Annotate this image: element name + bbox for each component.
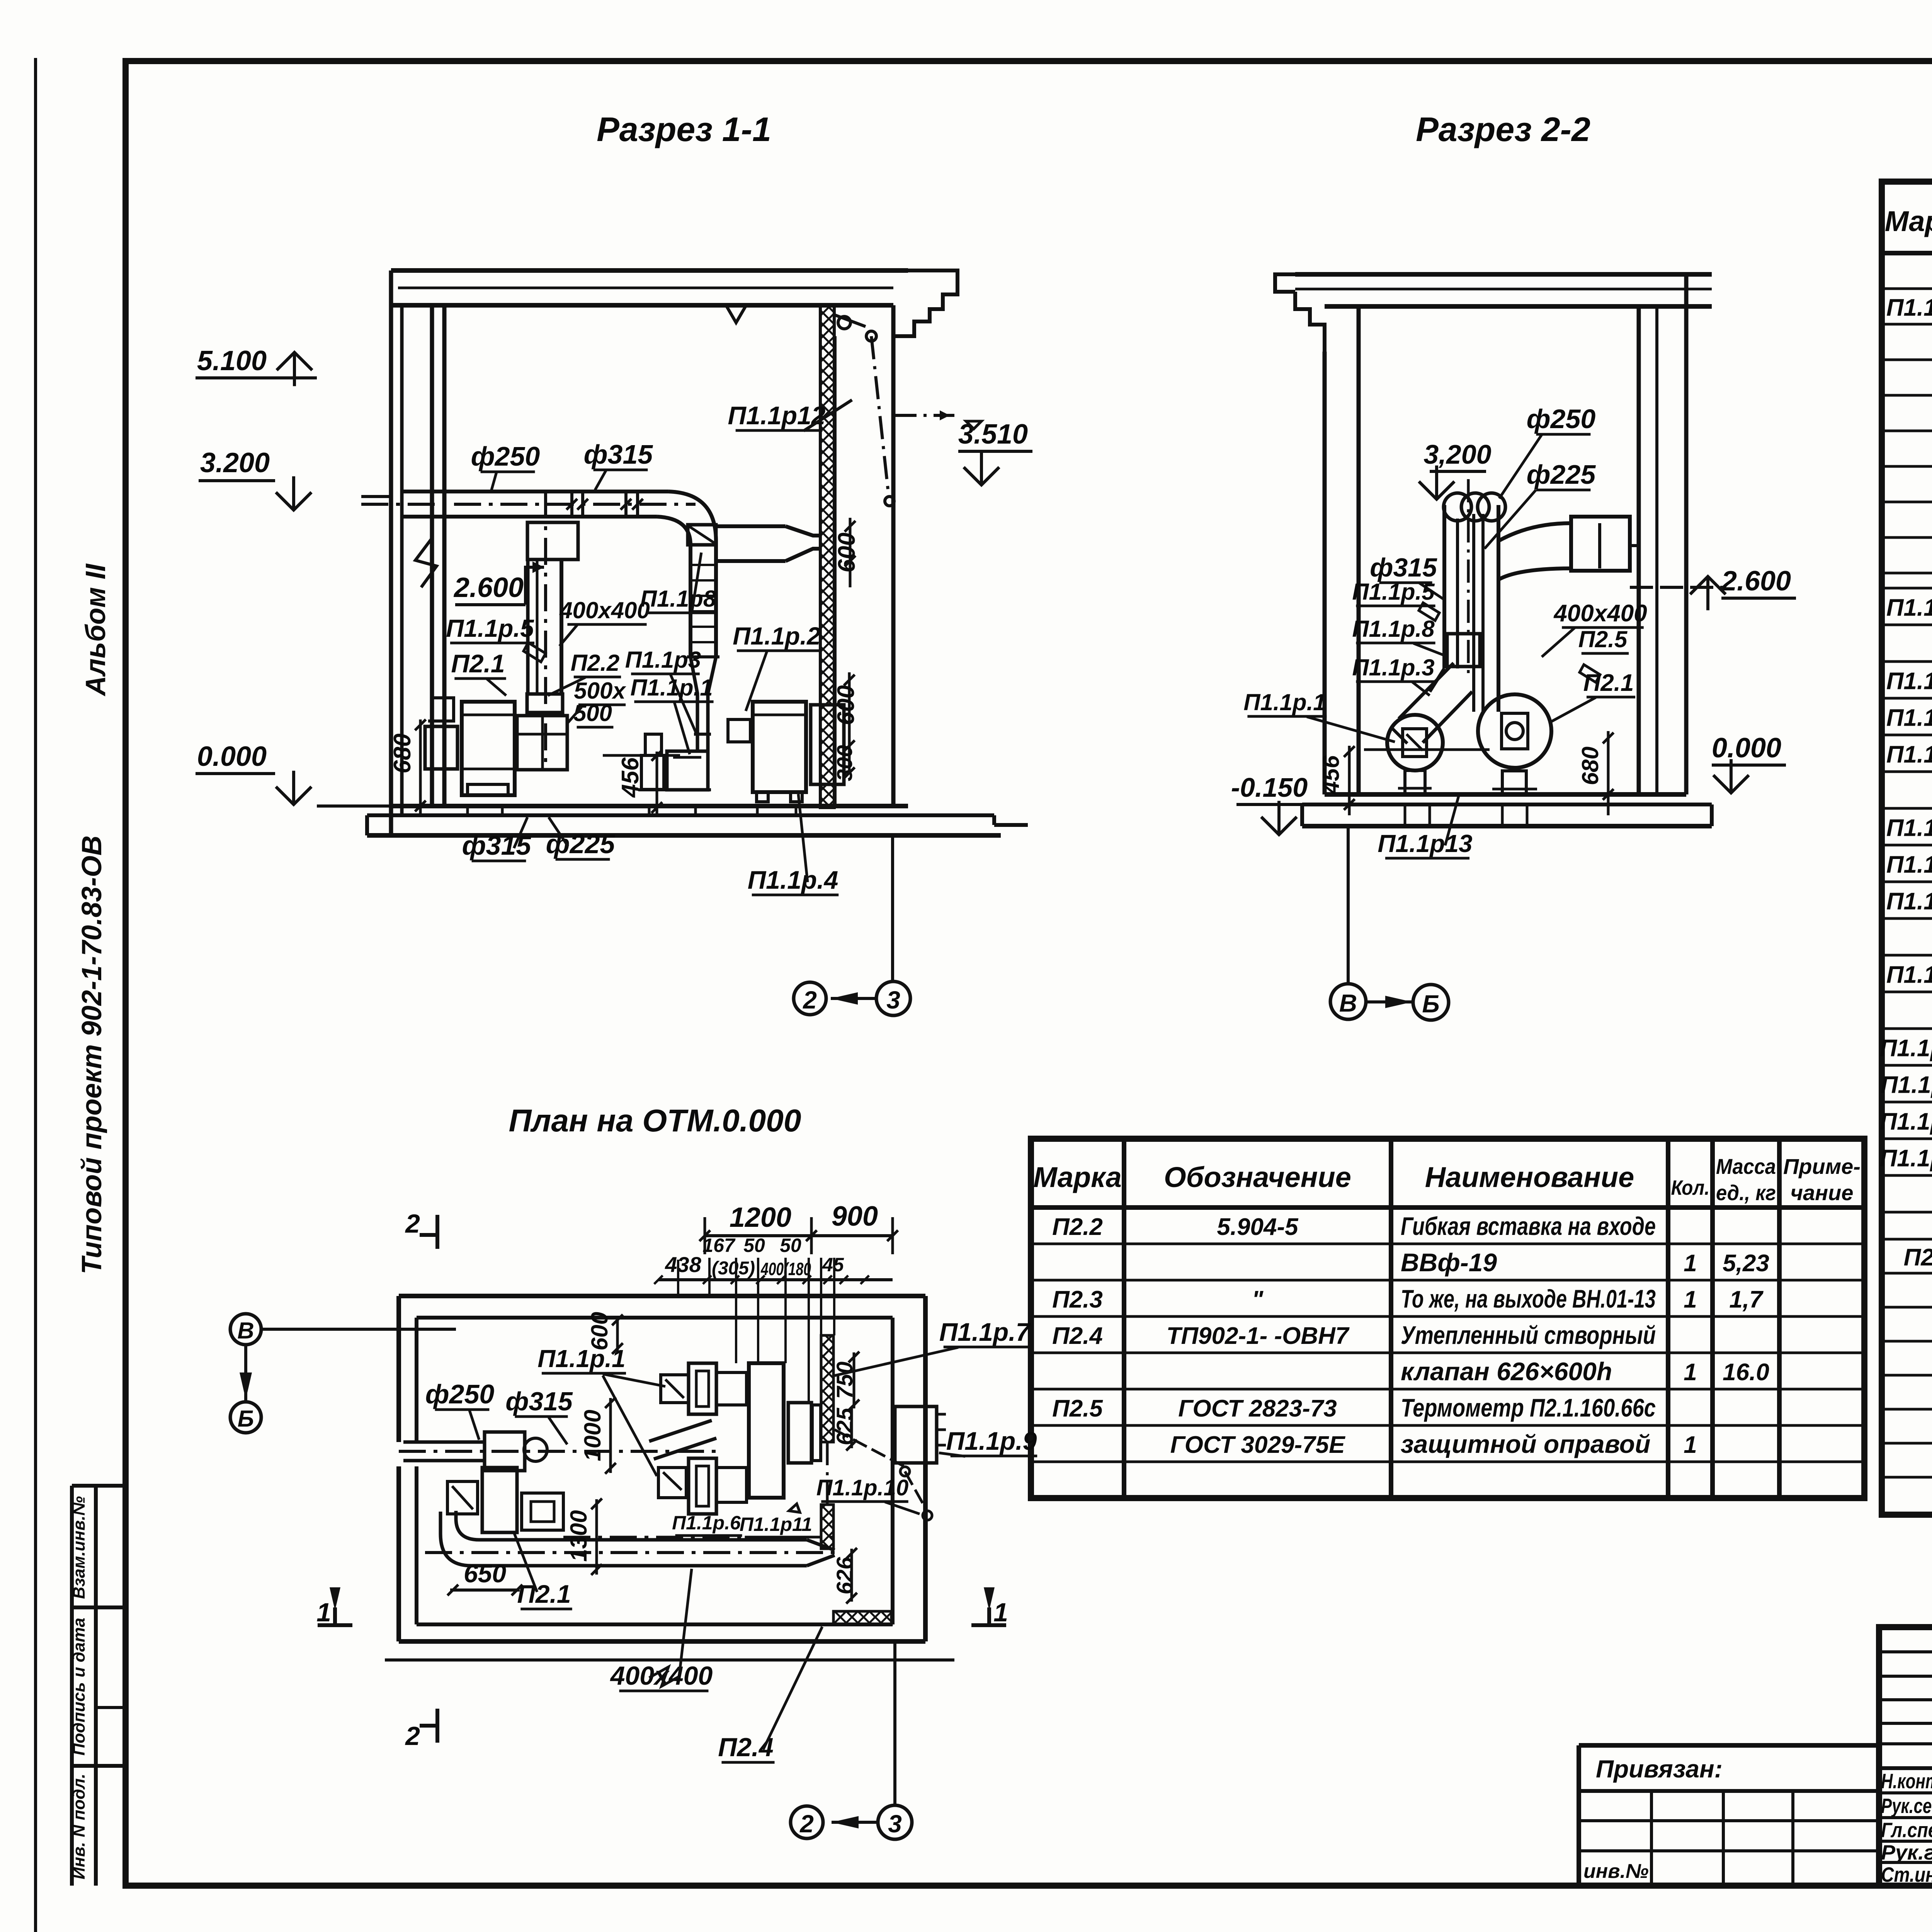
svg-text:1: 1 (993, 1598, 1008, 1627)
svg-text:П1.1р.5: П1.1р.5 (1886, 742, 1932, 768)
svg-text:П2.5: П2.5 (1052, 1395, 1103, 1422)
svg-text:П1.1р.4: П1.1р.4 (1886, 705, 1932, 731)
svg-text:П1.1р.10: П1.1р.10 (1880, 1035, 1932, 1062)
svg-text:П2.3: П2.3 (1052, 1286, 1103, 1313)
plan drawing План на ОТМ.0.000 (230, 1103, 1037, 1839)
svg-text:(305): (305) (712, 1258, 755, 1279)
svg-text:438: 438 (665, 1252, 701, 1277)
svg-text:650: 650 (464, 1559, 506, 1588)
svg-text:ф315: ф315 (1370, 553, 1437, 582)
svg-text:3,200: 3,200 (1423, 439, 1491, 469)
svg-text:ф250: ф250 (471, 441, 540, 471)
svg-text:ф250: ф250 (1527, 404, 1596, 434)
svg-text:П2.2: П2.2 (1052, 1214, 1103, 1240)
svg-text:2: 2 (405, 1209, 420, 1238)
svg-text:П1.1р.12: П1.1р.12 (1880, 1109, 1932, 1135)
svg-text:ф250: ф250 (425, 1379, 495, 1409)
svg-text:Инв. N подл.: Инв. N подл. (70, 1774, 88, 1879)
svg-text:Разрез 2-2: Разрез 2-2 (1416, 110, 1590, 148)
svg-text:625: 625 (832, 1408, 857, 1446)
svg-text:Подпись и дата: Подпись и дата (70, 1618, 88, 1756)
svg-text:П1.1р.4: П1.1р.4 (748, 866, 838, 894)
svg-text:2.600: 2.600 (453, 572, 524, 603)
svg-text:0.000: 0.000 (197, 741, 267, 772)
svg-text:П1.1р.2: П1.1р.2 (733, 622, 820, 650)
svg-text:900: 900 (832, 1201, 878, 1232)
svg-text:Приме-: Приме- (1783, 1154, 1861, 1179)
svg-text:П1.1р.7: П1.1р.7 (939, 1318, 1031, 1346)
svg-text:П1.1р.1: П1.1р.1 (537, 1345, 625, 1372)
svg-text:Привязан:: Привязан: (1596, 1755, 1723, 1783)
svg-text:чание: чание (1791, 1180, 1854, 1205)
svg-text:1300: 1300 (566, 1510, 592, 1561)
svg-text:Н.контр.: Н.контр. (1881, 1770, 1932, 1793)
svg-text:То же, на выходе ВН.01-13: То же, на выходе ВН.01-13 (1401, 1284, 1656, 1313)
svg-text:Рук.сект: Рук.сект (1881, 1794, 1932, 1818)
svg-text:П1.1р.1: П1.1р.1 (1886, 294, 1932, 321)
svg-text:Типовой проект 902-1-70.83-ОВ: Типовой проект 902-1-70.83-ОВ (77, 835, 107, 1274)
svg-text:П2.5: П2.5 (1578, 626, 1628, 652)
svg-text:167: 167 (702, 1235, 736, 1256)
svg-text:Ст.инж.: Ст.инж. (1881, 1863, 1932, 1886)
svg-text:": " (1252, 1286, 1264, 1313)
svg-text:1: 1 (1684, 1432, 1697, 1458)
svg-text:П2.1: П2.1 (1583, 670, 1634, 696)
svg-text:План на ОТМ.0.000: План на ОТМ.0.000 (509, 1103, 801, 1138)
svg-text:680: 680 (1577, 747, 1603, 785)
svg-text:Утепленный створный: Утепленный створный (1401, 1321, 1656, 1349)
svg-text:2: 2 (799, 1810, 814, 1838)
svg-text:П1.1р.2: П1.1р.2 (1886, 595, 1932, 621)
svg-text:400х400: 400х400 (1553, 600, 1647, 627)
svg-text:Обозначение: Обозначение (1164, 1161, 1351, 1193)
svg-text:В: В (1339, 989, 1357, 1017)
svg-text:П1.1р.9: П1.1р.9 (946, 1427, 1037, 1455)
svg-text:1: 1 (1684, 1250, 1697, 1277)
svg-text:1000: 1000 (580, 1410, 605, 1461)
svg-text:1,7: 1,7 (1729, 1286, 1764, 1313)
svg-text:ВВф-19: ВВф-19 (1401, 1248, 1497, 1277)
svg-text:П1.1р.5: П1.1р.5 (1352, 579, 1435, 605)
title block ТП 902-1-70.83-ОВ (1579, 1627, 1932, 1932)
svg-text:Кол.: Кол. (1671, 1176, 1710, 1199)
svg-text:0.000: 0.000 (1712, 733, 1781, 764)
svg-text:клапан 626×600h: клапан 626×600h (1401, 1357, 1612, 1386)
svg-text:1: 1 (1684, 1286, 1697, 1313)
svg-text:Марка: Марка (1033, 1161, 1121, 1193)
svg-text:Гибкая вставка на входе: Гибкая вставка на входе (1401, 1212, 1656, 1240)
svg-text:П1.1р.6: П1.1р.6 (672, 1512, 741, 1534)
specification table П1.1р, П2 (1880, 97, 1932, 1515)
svg-text:Масса: Масса (1716, 1154, 1776, 1179)
svg-text:инв.№: инв.№ (1583, 1860, 1649, 1883)
svg-text:456: 456 (617, 757, 644, 798)
svg-text:2: 2 (405, 1721, 420, 1751)
svg-text:П1.1р.8: П1.1р.8 (1352, 616, 1435, 642)
svg-text:1: 1 (1684, 1359, 1697, 1386)
svg-text:3: 3 (888, 1810, 902, 1838)
svg-text:П1.1р.3: П1.1р.3 (1352, 655, 1434, 680)
svg-text:Разрез 1-1: Разрез 1-1 (597, 110, 771, 148)
svg-text:П1.1р.10: П1.1р.10 (816, 1475, 908, 1500)
svg-text:П1.1р.1: П1.1р.1 (630, 675, 713, 701)
svg-text:защитной оправой: защитной оправой (1401, 1430, 1650, 1458)
svg-text:ГОСТ 2823-73: ГОСТ 2823-73 (1178, 1395, 1337, 1422)
svg-text:П2.1: П2.1 (451, 649, 505, 678)
section drawing Разрез 2-2 (1231, 110, 1796, 1020)
svg-text:ф315: ф315 (505, 1387, 573, 1416)
svg-text:Наименование: Наименование (1425, 1161, 1634, 1193)
svg-text:680: 680 (389, 733, 416, 773)
svg-text:П1.1р.9: П1.1р.9 (1886, 962, 1932, 988)
svg-text:Рук.гр.: Рук.гр. (1881, 1841, 1932, 1864)
svg-text:П1.1р.8: П1.1р.8 (1886, 888, 1932, 915)
svg-text:Б: Б (238, 1406, 254, 1432)
svg-text:ед., кг: ед., кг (1716, 1180, 1776, 1205)
svg-text:1: 1 (316, 1598, 331, 1627)
specification table П2.2-П2.5 (1031, 1139, 1864, 1498)
svg-text:2.600: 2.600 (1721, 566, 1791, 597)
svg-text:Альбом II: Альбом II (80, 563, 111, 696)
svg-text:Взам.инв.№: Взам.инв.№ (70, 1496, 88, 1599)
svg-text:5,23: 5,23 (1723, 1250, 1769, 1277)
svg-text:16.0: 16.0 (1723, 1359, 1769, 1386)
svg-text:50: 50 (743, 1235, 765, 1256)
svg-text:3: 3 (886, 986, 900, 1014)
svg-text:П1.1р.7: П1.1р.7 (1886, 852, 1932, 878)
svg-text:П1.1р.3: П1.1р.3 (1886, 668, 1932, 695)
svg-text:П1.1р13: П1.1р13 (1378, 830, 1472, 857)
svg-text:П1.1р.13: П1.1р.13 (1880, 1145, 1932, 1172)
svg-text:5.904-5: 5.904-5 (1217, 1214, 1299, 1240)
svg-text:626: 626 (832, 1557, 857, 1595)
svg-text:50: 50 (780, 1235, 801, 1256)
svg-text:-0.150: -0.150 (1231, 772, 1308, 803)
svg-text:Термометр П2.1.160.66с: Термометр П2.1.160.66с (1401, 1393, 1656, 1422)
svg-text:ГОСТ 3029-75Е: ГОСТ 3029-75Е (1170, 1432, 1346, 1458)
svg-text:ф225: ф225 (546, 829, 616, 859)
svg-text:500х: 500х (574, 678, 626, 704)
svg-text:П2.2: П2.2 (571, 650, 620, 676)
svg-text:600: 600 (833, 685, 859, 725)
svg-text:П1.1р.5: П1.1р.5 (446, 614, 534, 642)
svg-text:П1.1р8: П1.1р8 (640, 586, 716, 612)
svg-text:600: 600 (833, 532, 860, 572)
svg-text:2: 2 (803, 986, 817, 1014)
svg-text:П2.1: П2.1 (517, 1580, 571, 1608)
svg-text:П1.1р11: П1.1р11 (740, 1514, 812, 1535)
svg-text:Б: Б (1422, 990, 1439, 1018)
section drawing Разрез 1-1 (196, 110, 1032, 1015)
svg-text:5.100: 5.100 (197, 345, 267, 376)
svg-text:1200: 1200 (730, 1202, 791, 1233)
svg-text:Гл.спец.: Гл.спец. (1881, 1819, 1932, 1842)
svg-text:П2.4: П2.4 (1052, 1323, 1103, 1349)
svg-text:400х400: 400х400 (559, 597, 650, 623)
svg-text:П1.1р3: П1.1р3 (625, 647, 701, 673)
svg-text:ТП902-1- -ОВН7: ТП902-1- -ОВН7 (1167, 1323, 1350, 1349)
svg-text:500: 500 (573, 700, 612, 726)
svg-text:В: В (237, 1318, 254, 1344)
svg-text:456: 456 (1318, 755, 1344, 794)
svg-text:П1.1р.11: П1.1р.11 (1881, 1072, 1932, 1099)
svg-text:Марка: Марка (1885, 205, 1932, 237)
svg-text:П2.1: П2.1 (1904, 1244, 1932, 1271)
svg-text:П1.1р.6: П1.1р.6 (1886, 815, 1932, 842)
svg-text:ф315: ф315 (584, 439, 653, 469)
svg-text:3.200: 3.200 (200, 447, 270, 478)
svg-text:ф225: ф225 (1527, 459, 1596, 490)
svg-text:П1.1р.1: П1.1р.1 (1243, 689, 1326, 715)
